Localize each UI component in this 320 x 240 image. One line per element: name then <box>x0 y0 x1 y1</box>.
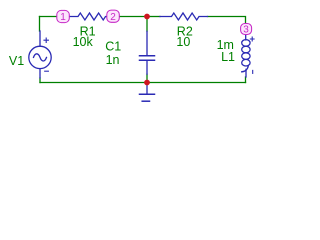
capacitor C1 bottom plate <box>140 59 155 61</box>
ground narrow bar <box>142 100 149 102</box>
inductor L1 minus marker <box>252 70 254 73</box>
inductor L1 top stem <box>245 35 247 40</box>
node 1 bubble <box>57 10 70 22</box>
resistor R1 <box>63 13 113 20</box>
node 3 bubble <box>241 24 252 35</box>
voltage source V1 circle <box>29 46 51 68</box>
V1 bottom pin <box>39 69 41 78</box>
resistor R2 <box>160 13 208 20</box>
junction dot bottom <box>144 80 150 86</box>
svg-text:10k: 10k <box>73 35 94 49</box>
inductor L1 loop 1 <box>242 40 250 47</box>
inductor L1 plus marker <box>250 37 254 41</box>
node 2 bubble <box>107 10 120 22</box>
V1 top pin <box>39 31 41 46</box>
svg-text:C1: C1 <box>105 40 121 54</box>
inductor L1 loop 2 <box>242 46 250 53</box>
wire node2 to junction <box>119 16 147 18</box>
inductor L1 bottom tail <box>242 66 249 72</box>
svg-text:L1: L1 <box>221 50 235 64</box>
V1 plus marker <box>44 38 48 42</box>
wire inductor bottom to bottom-right corner <box>245 77 247 83</box>
V1 minus marker <box>45 70 49 72</box>
svg-text:V1: V1 <box>9 54 24 68</box>
inductor L1 loop 3 <box>242 53 250 60</box>
V1 sine wave <box>34 54 47 61</box>
wire bottom horizontal <box>40 82 246 84</box>
junction dot top <box>144 14 150 20</box>
svg-text:2: 2 <box>110 12 116 23</box>
inductor L1 loop 4 <box>242 59 250 66</box>
wire left vertical <box>39 17 41 32</box>
svg-text:3: 3 <box>243 25 249 36</box>
ground stem <box>146 83 148 94</box>
capacitor C1 bottom pin <box>146 61 148 74</box>
svg-text:1: 1 <box>60 12 66 23</box>
wire junction down to C1 <box>146 17 148 32</box>
svg-text:1n: 1n <box>106 53 120 67</box>
capacitor C1 top plate <box>140 55 155 57</box>
wire junction to R2 <box>147 16 160 18</box>
inductor L1 bottom pin <box>245 69 247 77</box>
svg-text:10: 10 <box>176 35 190 49</box>
wire top-left horizontal <box>40 16 59 18</box>
capacitor C1 top pin <box>146 31 148 55</box>
wire V1 bottom stub <box>39 78 41 83</box>
ground wide bar <box>140 93 155 95</box>
wire C1 bottom to ground junction <box>146 74 148 82</box>
wire R2 to top-right corner <box>208 17 246 25</box>
